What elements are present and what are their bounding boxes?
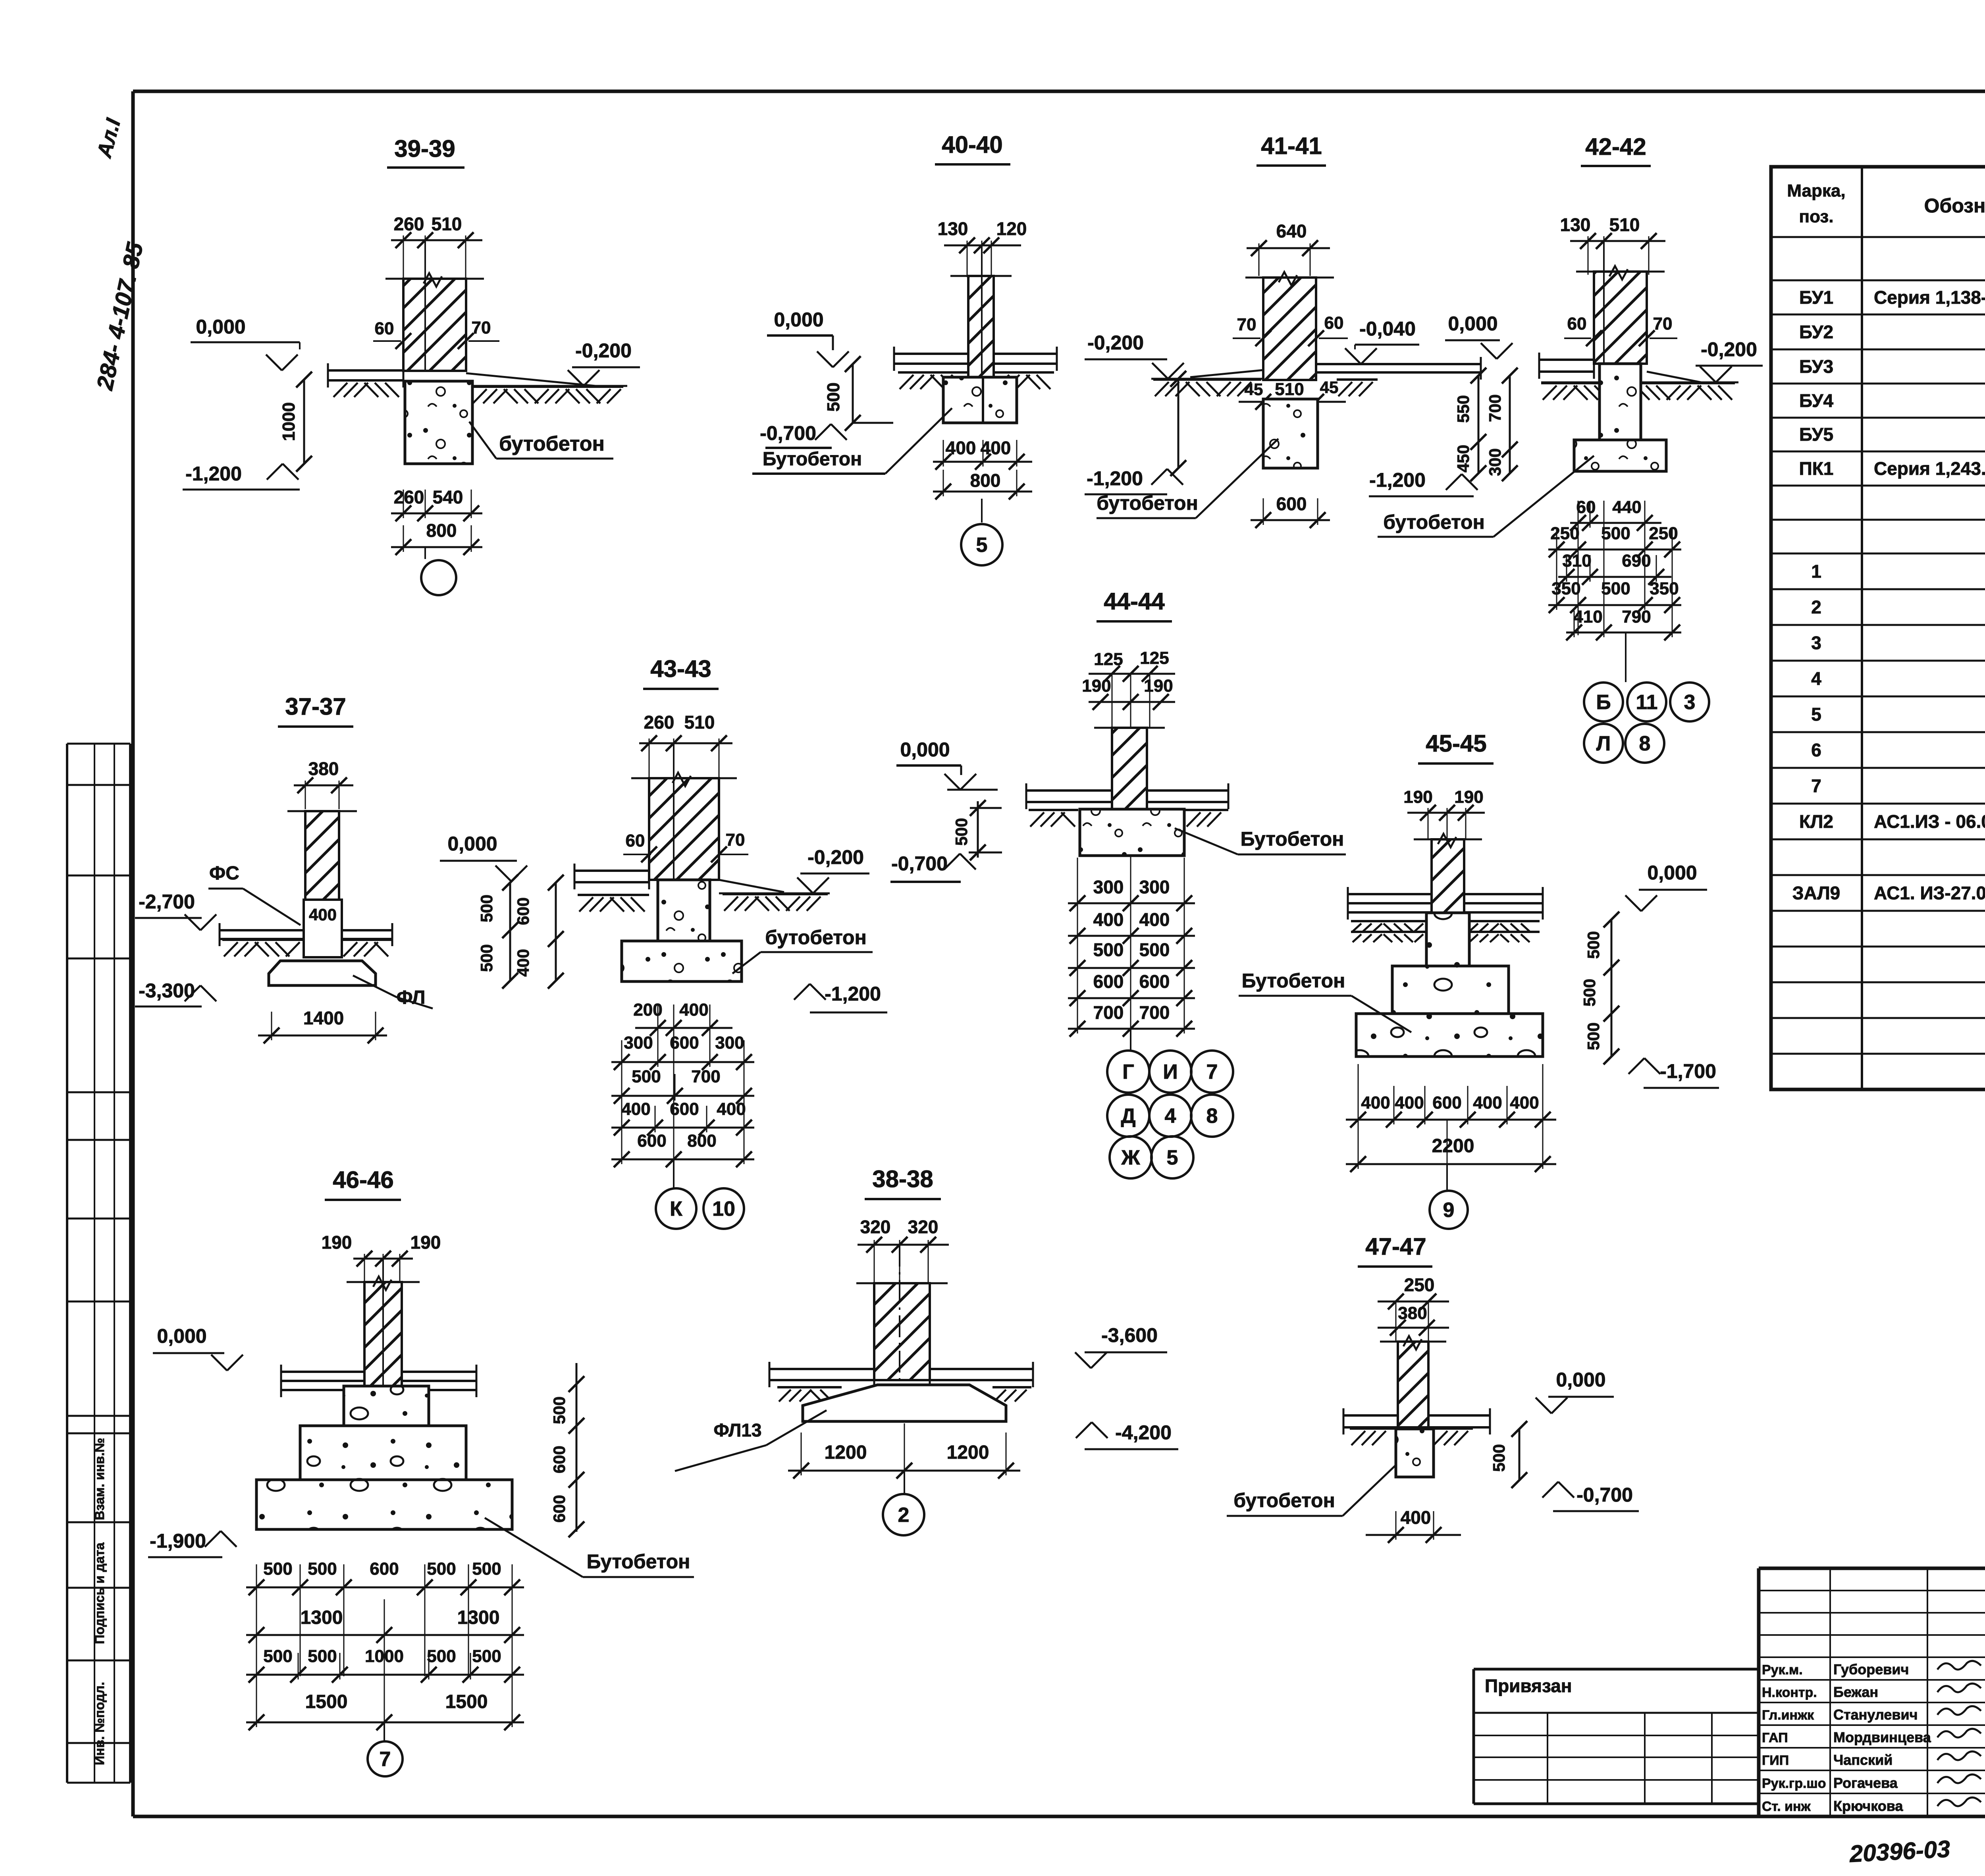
table row BU3 xyxy=(1799,356,1985,377)
section 42-42 left vertical dims 550 450 xyxy=(1454,368,1486,481)
svg-text:Привязан: Привязан xyxy=(1485,1675,1572,1696)
section 37-37 right vertical dims 600 400 xyxy=(514,875,564,989)
svg-text:500: 500 xyxy=(472,1559,501,1579)
svg-text:1200: 1200 xyxy=(825,1442,867,1463)
section 38-38 foundation pad FL13 xyxy=(803,1385,1006,1421)
section 39-39 butobeton foundation block xyxy=(405,381,472,464)
section 44-44 floor slab xyxy=(1026,783,1228,809)
svg-text:Б: Б xyxy=(1596,691,1611,714)
svg-text:Чапский: Чапский xyxy=(1833,1752,1892,1768)
svg-text:Ж: Ж xyxy=(1121,1146,1141,1169)
section 42-42 axis circles B 11 3 L 8 xyxy=(1584,632,1709,763)
section 42-42 butobeton label xyxy=(1378,456,1594,537)
specification table grid xyxy=(1771,167,1985,1089)
section 37-37 foundation pad FL xyxy=(269,961,376,985)
svg-text:Г: Г xyxy=(1122,1060,1134,1084)
title block signatures text xyxy=(1762,1661,1985,1814)
svg-text:190: 190 xyxy=(1454,787,1483,807)
section 41-41 level flag -0.040 xyxy=(1345,318,1419,364)
svg-text:ЗАЛ9: ЗАЛ9 xyxy=(1792,883,1840,903)
section 47-47 wall hatched xyxy=(1380,1336,1446,1427)
section 38-38 bottom dim 1200 1200 xyxy=(788,1442,1020,1479)
section 41-41 foundation block xyxy=(1263,399,1318,468)
svg-text:11: 11 xyxy=(1636,691,1658,714)
svg-text:1300: 1300 xyxy=(301,1607,343,1628)
section 46-46 level flag 0.000 xyxy=(153,1325,243,1371)
section 38-38 level flag -3.600 xyxy=(1075,1324,1167,1368)
svg-text:0,000: 0,000 xyxy=(774,308,823,331)
section 47-47 dim 380 xyxy=(1378,1301,1449,1342)
svg-text:540: 540 xyxy=(433,487,463,507)
svg-text:120: 120 xyxy=(996,218,1027,239)
section 45-45 bottom dim 2200 xyxy=(1346,1136,1556,1172)
svg-text:190: 190 xyxy=(1403,787,1432,807)
svg-text:70: 70 xyxy=(472,318,491,337)
section 43-43 dim ladder row 500 700 xyxy=(611,1067,754,1104)
section 38-38 top dim 320 320 xyxy=(858,1217,949,1282)
svg-text:510: 510 xyxy=(1609,214,1640,235)
svg-text:2200: 2200 xyxy=(1432,1136,1474,1157)
table row pos6 xyxy=(1811,740,1985,760)
svg-text:-2,700: -2,700 xyxy=(139,891,195,913)
svg-text:250: 250 xyxy=(1404,1274,1435,1295)
svg-text:46-46: 46-46 xyxy=(333,1166,393,1193)
section 42-42 wall hatched xyxy=(1576,241,1665,364)
table row ZAL9 xyxy=(1792,883,1985,903)
svg-text:500: 500 xyxy=(632,1067,661,1086)
svg-text:43-43: 43-43 xyxy=(650,656,711,682)
svg-text:300: 300 xyxy=(1139,877,1170,897)
svg-text:-1,200: -1,200 xyxy=(825,983,881,1005)
svg-text:700: 700 xyxy=(1093,1002,1124,1023)
section 44-44 left vertical dim 500 xyxy=(952,800,1002,860)
svg-text:400: 400 xyxy=(309,905,337,924)
svg-text:260: 260 xyxy=(394,487,424,507)
section 43-43 dim ladder row 400 600 400 xyxy=(611,1099,754,1136)
section 42-42 dim ladder row 250 500 250 xyxy=(1548,524,1681,557)
section 42-42 left vertical dims 700 300 xyxy=(1486,368,1518,481)
section 47-47 butobeton label xyxy=(1227,1464,1397,1516)
section 37-37 ground hatch xyxy=(222,940,392,956)
section 38-38 dim verticals xyxy=(801,1423,1006,1473)
svg-text:7: 7 xyxy=(1811,775,1821,796)
svg-text:700: 700 xyxy=(1139,1002,1170,1023)
svg-text:60: 60 xyxy=(626,831,645,850)
svg-text:1000: 1000 xyxy=(279,402,299,441)
privyazan stamp box xyxy=(1474,1669,1759,1804)
section 43-43 butobeton label xyxy=(732,926,873,974)
svg-text:Взам. инв.№: Взам. инв.№ xyxy=(92,1438,107,1520)
svg-text:60: 60 xyxy=(375,319,394,338)
svg-text:1500: 1500 xyxy=(445,1691,488,1712)
svg-text:45-45: 45-45 xyxy=(1426,730,1486,757)
svg-text:-3,600: -3,600 xyxy=(1101,1324,1158,1346)
section 41-41 dim 45 510 45 xyxy=(1239,378,1346,410)
svg-text:ГАП: ГАП xyxy=(1762,1730,1788,1745)
section 43-43 ground hatch right xyxy=(723,894,828,911)
specification table header xyxy=(1787,175,1985,226)
svg-text:1500: 1500 xyxy=(305,1691,348,1712)
svg-text:500: 500 xyxy=(308,1647,337,1666)
section 46-46 dim ladder row 500 500 1000 500 500 xyxy=(246,1647,524,1683)
section 46-46 right vertical dims 500 600 600 xyxy=(550,1363,584,1537)
svg-text:ПК1: ПК1 xyxy=(1799,458,1834,479)
svg-text:510: 510 xyxy=(432,214,462,234)
svg-text:500: 500 xyxy=(1584,931,1603,959)
section 37-37 level flag -2.700 xyxy=(135,891,216,930)
svg-text:-0,200: -0,200 xyxy=(575,339,632,362)
title block outer frame xyxy=(1759,1568,1985,1816)
section 47-47 floor slab xyxy=(1343,1408,1490,1434)
svg-text:130: 130 xyxy=(1560,214,1591,235)
svg-text:500: 500 xyxy=(427,1559,456,1579)
section 43-43 wall hatched xyxy=(631,743,737,880)
svg-text:Инв. №подл.: Инв. №подл. xyxy=(92,1682,107,1765)
svg-text:500: 500 xyxy=(1601,579,1630,598)
svg-text:400: 400 xyxy=(1401,1507,1431,1528)
section 43-43 dim ladder row 200 400 xyxy=(633,1000,732,1036)
section 44-44 top dim 125 125 xyxy=(1089,648,1175,682)
svg-text:20396-03: 20396-03 xyxy=(1848,1836,1951,1867)
section 39-39 wall hatched xyxy=(385,240,484,371)
section 40-40 axis circle 5 xyxy=(961,499,1002,565)
svg-text:Мордвинцева: Мордвинцева xyxy=(1833,1729,1931,1745)
svg-text:600: 600 xyxy=(550,1495,569,1523)
svg-text:0,000: 0,000 xyxy=(1556,1369,1605,1391)
svg-text:400: 400 xyxy=(717,1099,746,1119)
svg-text:500: 500 xyxy=(263,1647,292,1666)
svg-text:250: 250 xyxy=(1649,524,1678,543)
svg-text:-0,200: -0,200 xyxy=(1701,338,1757,361)
section 39-39 bottom dim 800 xyxy=(391,520,482,555)
svg-text:7: 7 xyxy=(380,1748,391,1771)
svg-text:500: 500 xyxy=(477,944,496,972)
svg-text:500: 500 xyxy=(427,1647,456,1666)
section 45-45 right vertical dims 500 500 500 xyxy=(1580,912,1619,1064)
section 43-43 floor slab left xyxy=(574,864,649,889)
svg-text:300: 300 xyxy=(1093,877,1124,897)
svg-text:500: 500 xyxy=(550,1396,569,1424)
svg-text:44-44: 44-44 xyxy=(1104,588,1165,615)
svg-text:Л: Л xyxy=(1596,732,1611,755)
section 46-46 axis circle 7 xyxy=(368,1722,403,1776)
svg-text:70: 70 xyxy=(1237,315,1257,334)
svg-text:70: 70 xyxy=(1653,314,1673,334)
section 41-41 ground hatch left xyxy=(1153,380,1261,396)
section 39-39 small dims 60 70 xyxy=(373,318,499,349)
section 44-44 butobeton label xyxy=(1175,828,1346,854)
svg-text:47-47: 47-47 xyxy=(1365,1233,1426,1260)
section 41-41 butobeton label xyxy=(1097,439,1278,518)
section 38-38 ground hatch xyxy=(777,1387,1031,1402)
section 39-39 title xyxy=(387,135,464,168)
svg-text:КЛ2: КЛ2 xyxy=(1799,811,1833,832)
section 42-42 foundation pier xyxy=(1600,364,1641,440)
section 41-41 level flag -0.200 xyxy=(1085,332,1184,379)
svg-text:450: 450 xyxy=(1454,445,1472,472)
svg-text:690: 690 xyxy=(1622,551,1651,571)
svg-text:600: 600 xyxy=(514,897,532,925)
svg-text:190: 190 xyxy=(1144,676,1173,696)
svg-text:10: 10 xyxy=(712,1197,735,1220)
section 46-46 butobeton label xyxy=(485,1518,694,1577)
svg-text:БУ4: БУ4 xyxy=(1799,390,1834,411)
section 39-39 bottom dim 260 540 xyxy=(391,487,482,521)
section 38-38 wall hatched xyxy=(856,1245,948,1380)
section 41-41 floor slab right xyxy=(1316,357,1481,380)
table row BU4 xyxy=(1799,390,1985,411)
svg-text:700: 700 xyxy=(1486,394,1504,422)
section 40-40 foundation block xyxy=(943,377,1017,423)
section 42-42 dim ladder row 60 440 xyxy=(1570,497,1661,531)
svg-text:500: 500 xyxy=(1580,979,1599,1006)
section 39-39 butobeton label xyxy=(469,422,613,459)
svg-text:500: 500 xyxy=(1584,1022,1603,1050)
section 45-45 axis circle 9 xyxy=(1430,1164,1468,1229)
svg-text:9: 9 xyxy=(1443,1199,1455,1222)
svg-text:бутобетон: бутобетон xyxy=(1097,492,1198,514)
section 41-41 vertical dim line xyxy=(1170,371,1186,476)
section 44-44 dim ladder row 500 500 xyxy=(1068,939,1195,976)
section 37-37 wall hatched xyxy=(287,811,357,900)
section 47-47 vertical dim 500 xyxy=(1490,1421,1527,1488)
svg-text:Д: Д xyxy=(1121,1105,1135,1128)
section 38-38 FL13 label xyxy=(675,1410,827,1471)
svg-text:125: 125 xyxy=(1140,648,1169,668)
svg-text:500: 500 xyxy=(477,895,496,922)
table row pos2 ugolok xyxy=(1811,592,1985,624)
svg-text:К: К xyxy=(670,1197,682,1220)
svg-text:260: 260 xyxy=(394,214,424,234)
svg-text:60: 60 xyxy=(1324,313,1344,333)
svg-text:бутобетон: бутобетон xyxy=(765,926,867,949)
svg-text:ГИП: ГИП xyxy=(1762,1753,1789,1768)
svg-text:320: 320 xyxy=(908,1217,939,1237)
svg-text:39-39: 39-39 xyxy=(394,135,455,162)
svg-text:500: 500 xyxy=(263,1559,292,1579)
table row pos1 xyxy=(1811,561,1985,582)
svg-text:Бутобетон: Бутобетон xyxy=(1242,970,1345,992)
table row PK1 xyxy=(1799,458,1985,479)
svg-text:Н.контр.: Н.контр. xyxy=(1762,1685,1817,1700)
svg-text:1300: 1300 xyxy=(457,1607,500,1628)
section 37-37 right vertical dims 500 500 xyxy=(477,875,518,989)
section 39-39 ground hatch left xyxy=(332,380,403,397)
table row KL2 xyxy=(1799,811,1985,832)
svg-text:Гл.инжк: Гл.инжк xyxy=(1762,1708,1814,1723)
section 43-43 ground hatch left xyxy=(578,895,649,912)
svg-text:260: 260 xyxy=(644,712,675,733)
section 40-40 title xyxy=(935,131,1010,164)
svg-text:0,000: 0,000 xyxy=(157,1325,206,1347)
section 45-45 floor slab xyxy=(1348,887,1543,920)
section 46-46 dim ladder verticals xyxy=(256,1564,512,1723)
svg-text:800: 800 xyxy=(426,520,457,541)
svg-text:1200: 1200 xyxy=(947,1442,989,1463)
section 42-42 dim ladder verticals xyxy=(1557,501,1672,635)
section 43-43 foundation neck xyxy=(658,880,710,941)
section 42-42 small dims 60 70 xyxy=(1564,314,1677,346)
section 39-39 top dimension 260 510 xyxy=(391,214,482,278)
svg-text:800: 800 xyxy=(970,470,1001,491)
svg-text:4: 4 xyxy=(1811,668,1821,689)
section 38-38 title xyxy=(865,1166,941,1199)
svg-text:400: 400 xyxy=(1139,909,1170,930)
section 45-45 top dim 190 190 xyxy=(1403,787,1485,839)
svg-text:4: 4 xyxy=(1165,1105,1176,1128)
svg-text:7: 7 xyxy=(1206,1060,1218,1084)
table row pos7 xyxy=(1811,775,1985,796)
left margin stamp column xyxy=(67,744,130,1783)
svg-text:0,000: 0,000 xyxy=(1448,312,1497,335)
svg-text:Крючкова: Крючкова xyxy=(1833,1798,1903,1814)
svg-text:2: 2 xyxy=(898,1504,910,1527)
section 47-47 level flag 0.000 xyxy=(1536,1369,1614,1413)
svg-text:350: 350 xyxy=(1650,579,1679,598)
svg-text:41-41: 41-41 xyxy=(1261,133,1322,159)
section 38-38 floor slab xyxy=(769,1362,1033,1387)
section 44-44 dim ladder row 300 300 xyxy=(1068,877,1195,911)
section 43-43 dim ladder row 300 600 300 xyxy=(611,1033,754,1070)
svg-text:Серия 1,243.1-4: Серия 1,243.1-4 xyxy=(1874,458,1985,479)
section 46-46 top dim 190 190 xyxy=(322,1232,441,1282)
section 40-40 level flag -0.700 xyxy=(760,422,847,448)
svg-text:60: 60 xyxy=(1567,314,1587,334)
svg-text:400: 400 xyxy=(1473,1093,1502,1112)
section 45-45 ground hatch xyxy=(1351,921,1540,942)
svg-text:500: 500 xyxy=(1093,939,1124,960)
section 41-41 ground hatch right xyxy=(1337,380,1378,396)
svg-text:0,000: 0,000 xyxy=(900,738,950,761)
svg-text:Бутобетон: Бутобетон xyxy=(1241,828,1344,850)
svg-text:3: 3 xyxy=(1684,691,1696,714)
svg-text:600: 600 xyxy=(1432,1093,1461,1112)
section 46-46 floor slab xyxy=(281,1365,476,1397)
svg-text:Ст. инж: Ст. инж xyxy=(1762,1799,1811,1814)
section 37-37 level flag -3.300 xyxy=(135,979,216,1006)
section 39-39 floor slab left xyxy=(328,363,403,388)
svg-text:Бутобетон: Бутобетон xyxy=(587,1550,690,1573)
section 39-39 level flag -1.200 xyxy=(183,463,300,490)
section 43-43 dim ladder row 600 800 xyxy=(611,1131,754,1167)
svg-text:38-38: 38-38 xyxy=(872,1166,933,1192)
section 40-40 wall hatched xyxy=(950,245,1012,377)
section 45-45 bottom dim 400 400 600 400 400 xyxy=(1346,1093,1556,1128)
table row BU5 xyxy=(1799,424,1985,445)
svg-text:400: 400 xyxy=(1361,1093,1390,1112)
section 42-42 dim ladder row 350 500 350 xyxy=(1548,579,1681,613)
section 43-43 small dims 60 70 xyxy=(623,830,748,862)
svg-text:-0,700: -0,700 xyxy=(891,852,948,875)
svg-text:40-40: 40-40 xyxy=(942,131,1002,158)
section 46-46 level flag -1.900 xyxy=(148,1530,237,1557)
svg-text:-0,040: -0,040 xyxy=(1359,318,1416,340)
section 47-47 top dim 250 xyxy=(1378,1274,1449,1309)
section 42-42 ground line and slope xyxy=(1541,372,1738,382)
svg-text:-1,900: -1,900 xyxy=(150,1530,206,1552)
section 45-45 wall hatched xyxy=(1414,834,1482,913)
table row pos4 xyxy=(1811,668,1985,689)
section 47-47 level flag -0.700 xyxy=(1542,1482,1639,1511)
svg-text:500: 500 xyxy=(472,1647,501,1666)
svg-text:400: 400 xyxy=(1510,1093,1539,1112)
section 43-43 foundation base xyxy=(622,941,742,981)
section 41-41 ground left ramp xyxy=(1151,370,1263,379)
svg-text:БУ5: БУ5 xyxy=(1799,424,1833,445)
svg-text:1: 1 xyxy=(1811,561,1821,582)
section 38-38 axis circle 2 xyxy=(883,1471,924,1535)
svg-text:5: 5 xyxy=(976,534,988,557)
rotated document number 284-4-107.85 Al.I top left margin xyxy=(92,116,148,393)
svg-text:190: 190 xyxy=(410,1232,441,1253)
section 44-44 guides xyxy=(1112,674,1150,809)
section 40-40 bottom dim 800 xyxy=(933,470,1032,499)
section 43-43 title xyxy=(643,656,719,689)
section 38-38 level flag -4.200 xyxy=(1076,1421,1178,1449)
section 40-40 top dim 130 120 xyxy=(938,218,1027,277)
svg-text:300: 300 xyxy=(624,1033,653,1053)
svg-text:600: 600 xyxy=(1139,971,1170,992)
svg-text:Бутобетон: Бутобетон xyxy=(763,449,862,470)
svg-text:Рук.м.: Рук.м. xyxy=(1762,1662,1803,1677)
svg-text:400: 400 xyxy=(679,1000,708,1020)
svg-text:190: 190 xyxy=(322,1232,352,1253)
section 37-37 FS block with 400 xyxy=(304,900,342,957)
svg-text:550: 550 xyxy=(1454,395,1472,423)
section 41-41 level flag -1.200 xyxy=(1085,467,1183,494)
section 37-37 title xyxy=(278,693,353,727)
svg-text:-0,200: -0,200 xyxy=(807,846,864,868)
section 41-41 title xyxy=(1257,133,1326,166)
section 39-39 ground right slope xyxy=(466,373,627,386)
section 46-46 dim ladder row 500 500 600 500 500 xyxy=(246,1559,524,1595)
svg-text:-4,200: -4,200 xyxy=(1115,1421,1172,1444)
table row pos3 ugolok xyxy=(1811,628,1985,660)
section 47-47 title xyxy=(1358,1233,1432,1267)
svg-text:БУ1: БУ1 xyxy=(1799,287,1833,308)
svg-text:бутобетон: бутобетон xyxy=(1383,511,1485,533)
svg-text:Подпись и дата: Подпись и дата xyxy=(92,1542,107,1644)
svg-text:0,000: 0,000 xyxy=(1647,862,1697,884)
section 43-43 level flag -1.200 xyxy=(794,983,887,1012)
section 45-45 title xyxy=(1418,730,1494,764)
section 40-40 bottom dim 400 400 xyxy=(933,438,1032,470)
section 39-39 level flag 0.000 xyxy=(191,316,300,370)
svg-text:250: 250 xyxy=(1550,524,1579,543)
section 43-43 level flag -0.200 xyxy=(797,846,869,893)
section 44-44 dim ladder row 700 700 xyxy=(1068,1002,1195,1037)
svg-text:Обозначение: Обозначение xyxy=(1924,195,1985,217)
section 43-43 dim ladder verticals xyxy=(622,1005,744,1161)
svg-text:130: 130 xyxy=(938,218,968,239)
section 46-46 dim ladder row 1500 1500 xyxy=(246,1687,524,1730)
svg-text:380: 380 xyxy=(1398,1303,1427,1323)
svg-text:-0,700: -0,700 xyxy=(1576,1484,1633,1506)
svg-text:500: 500 xyxy=(1490,1444,1508,1472)
section 47-47 ground hatch xyxy=(1350,1429,1473,1445)
section 37-37 bottom dim 1400 xyxy=(258,1008,387,1043)
svg-text:-1,200: -1,200 xyxy=(1369,469,1426,491)
section 44-44 dim ladder row 600 600 xyxy=(1068,971,1195,1006)
svg-text:бутобетон: бутобетон xyxy=(499,432,605,455)
title block signature grid xyxy=(1759,1568,1985,1816)
section 43-43 axis circles K 10 xyxy=(656,1159,744,1229)
section 46-46 dim ladder row 1300 1300 xyxy=(246,1599,524,1643)
svg-text:500: 500 xyxy=(1139,939,1170,960)
section 43-43 ground right slope xyxy=(719,880,830,893)
svg-text:300: 300 xyxy=(715,1033,744,1053)
section 39-39 vertical dim 1000 xyxy=(279,372,312,472)
